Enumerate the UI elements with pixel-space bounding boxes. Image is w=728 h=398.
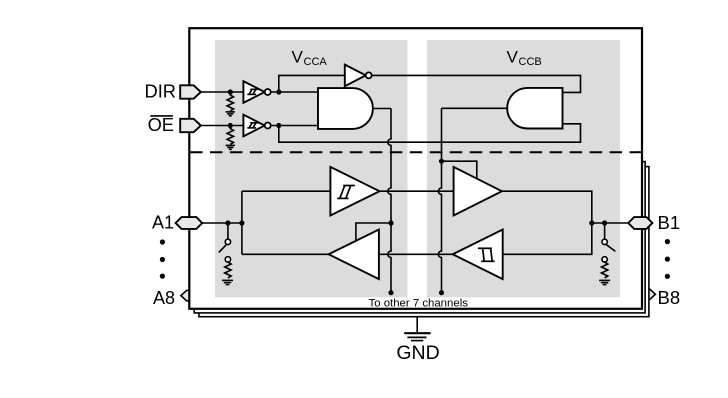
junction A1 pulldown tap (225, 220, 230, 225)
resistor B1 pulldown (601, 262, 607, 278)
svg-text:GND: GND (396, 342, 439, 364)
port B8 pad (tip visible behind stacked boxes) (643, 289, 655, 299)
junction OE node (276, 123, 281, 128)
wire GND stem (416, 317, 418, 333)
wire OE buffer output to AND gate A (270, 125, 318, 127)
ground (OE pulldown) (226, 145, 235, 149)
svg-text:A8: A8 (153, 288, 175, 308)
wire DIR buffer output to AND gate A (270, 91, 318, 93)
svg-text:To other 7 channels: To other 7 channels (369, 298, 469, 310)
junction A driver enable tap (388, 220, 393, 225)
ellipsis dots A ports (160, 239, 165, 244)
svg-text:V: V (507, 48, 519, 67)
svg-text:DIR: DIR (145, 81, 176, 102)
AND gate G1 (A-side enable) (318, 88, 373, 129)
resistor DIR pulldown (227, 92, 233, 111)
switch A1 pulldown (227, 223, 229, 239)
junction OE pulldown node (228, 123, 233, 128)
resistor OE pulldown (227, 126, 233, 145)
svg-text:A1: A1 (152, 212, 174, 232)
svg-text:CCA: CCA (304, 56, 328, 68)
wire A1 to internal node (202, 222, 242, 224)
port B1 pad (628, 217, 652, 229)
wire B node to B1 pad (592, 222, 628, 224)
ground GND symbol (404, 333, 430, 340)
junction DIR pulldown node (228, 89, 233, 94)
wire A node vertical riser (241, 191, 243, 254)
port A8 pad (tip visible behind main box) (181, 290, 194, 300)
schmitt buffer U4 (A to B data) (330, 167, 379, 216)
svg-text:CCB: CCB (519, 56, 542, 68)
wire B schmitt output to A driver input (379, 253, 453, 255)
schmitt buffer U7 (B to A data) (453, 230, 503, 280)
wire A node to A schmitt input (242, 190, 331, 192)
svg-text:OE: OE (148, 114, 174, 135)
stacked channel box 2 (194, 162, 645, 313)
node bus B to other channels (439, 290, 444, 295)
wire U3 output to AND gate B input (372, 75, 581, 92)
wire OE node down and right to AND gate B input (279, 124, 581, 142)
wire B driver output to B node (502, 191, 592, 254)
schmitt inverter U1 (DIR input buffer) (243, 81, 264, 103)
wire DIR node up to inverter U3 input (279, 75, 345, 92)
port A1 pad (176, 217, 203, 229)
svg-text:V: V (292, 48, 304, 67)
wire G2 output (442, 107, 508, 109)
wire A schmitt output to B driver (380, 190, 454, 192)
driver U6 (A to B output driver) (454, 167, 502, 216)
svg-text:B8: B8 (658, 287, 681, 308)
node bus A to other channels (388, 290, 393, 295)
schmitt inverter U2 (OE input buffer) (243, 115, 264, 137)
junction B1 data node (589, 220, 594, 225)
main device box (189, 28, 642, 309)
junction B1 pulldown tap (602, 220, 607, 225)
driver U5 (B to A output driver) (329, 230, 379, 280)
wire A driver output to A node (242, 253, 329, 255)
junction DIR node (276, 89, 281, 94)
wire G1 output (373, 108, 391, 110)
VCCA power domain shaded region (215, 40, 407, 297)
wire OE pad to schmitt input (201, 125, 243, 127)
VCCB power domain shaded region (427, 40, 620, 297)
wire DIR pad to schmitt input (201, 91, 243, 93)
junction B driver enable tap (439, 159, 444, 164)
ground (A1 pulldown) (222, 280, 233, 284)
dashed control/channel separator line (190, 151, 642, 153)
svg-text:B1: B1 (658, 212, 681, 233)
port OE pad (180, 119, 201, 132)
port DIR pad (180, 85, 201, 98)
AND gate G2 (B-side enable, mirrored) (507, 88, 562, 129)
wire A driver enable stub (356, 223, 391, 241)
resistor A1 pulldown (225, 262, 231, 278)
wire B driver enable stub (442, 161, 477, 178)
stacked channel box 3 (199, 167, 649, 317)
ellipsis dots B ports (665, 239, 670, 244)
wire vertical enable bus B (with hops) (438, 108, 441, 292)
inverter U3 (DIR to B-side) (345, 65, 366, 87)
junction A1 data node (239, 220, 244, 225)
wire vertical enable bus A (with hops) (388, 109, 391, 293)
ground (DIR pulldown) (226, 112, 235, 116)
ground (B1 pulldown) (599, 280, 610, 284)
switch B1 pulldown (604, 223, 606, 239)
